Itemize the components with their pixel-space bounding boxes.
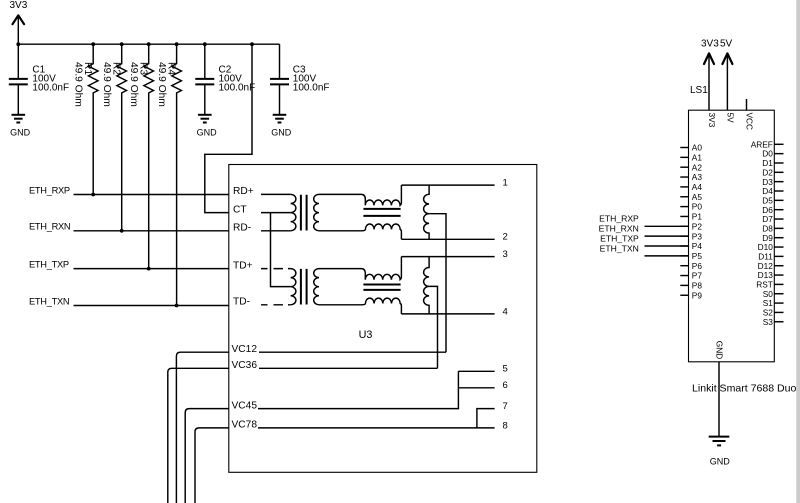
LS1 pin P5 bbox=[680, 251, 702, 261]
svg-text:3: 3 bbox=[503, 249, 508, 260]
LS1 pin A0 bbox=[680, 143, 702, 153]
capacitor C3 bbox=[270, 44, 330, 114]
svg-text:LS1: LS1 bbox=[690, 85, 708, 96]
svg-text:P3: P3 bbox=[692, 231, 703, 241]
svg-text:VC45: VC45 bbox=[232, 400, 258, 411]
junction R2-bottom bbox=[120, 229, 124, 233]
IC LS1 box bbox=[689, 110, 775, 362]
svg-text:S3: S3 bbox=[763, 317, 774, 327]
svg-text:RD+: RD+ bbox=[233, 186, 254, 197]
wire ETH_RXP to LS1 bbox=[645, 225, 689, 227]
svg-text:A5: A5 bbox=[692, 192, 703, 202]
junction rail-C2 bbox=[203, 42, 207, 46]
LS1 pin A1 bbox=[680, 152, 702, 162]
transformer T1 core bbox=[301, 195, 307, 231]
wire pin 5 bbox=[458, 370, 494, 372]
LS1 pin S1 bbox=[763, 298, 784, 308]
ground GND (C1) bbox=[10, 115, 31, 138]
LS1 pin RST bbox=[756, 280, 783, 290]
wire RD- lead bbox=[261, 230, 291, 232]
svg-text:A3: A3 bbox=[692, 172, 703, 182]
wire VC36 external bbox=[168, 368, 229, 503]
wire pin 7 riser bbox=[477, 409, 495, 428]
LS1 pin D7 bbox=[762, 214, 783, 224]
LS1 pin D13 bbox=[758, 270, 784, 280]
choke L1 core bbox=[363, 209, 400, 216]
LS1 pin P1 bbox=[680, 212, 702, 222]
svg-text:4: 4 bbox=[503, 306, 508, 317]
svg-text:49.9 Ohm: 49.9 Ohm bbox=[128, 62, 139, 107]
wire pin 2 bbox=[401, 238, 494, 240]
LS1 pin P9 bbox=[680, 290, 702, 300]
svg-text:ETH_RXN: ETH_RXN bbox=[29, 222, 70, 232]
svg-text:ETH_RXP: ETH_RXP bbox=[599, 214, 639, 224]
svg-text:49.9 Ohm: 49.9 Ohm bbox=[101, 62, 112, 107]
wire VC12 internal bbox=[259, 351, 446, 353]
svg-text:CT: CT bbox=[233, 204, 247, 215]
wire VC36 internal bbox=[259, 367, 438, 369]
junction rail-R3 bbox=[147, 42, 151, 46]
LS1 pin D0 bbox=[762, 149, 783, 159]
svg-text:P8: P8 bbox=[692, 281, 703, 291]
resistor R4 49.9 Ohm bbox=[156, 44, 181, 305]
wire pin 1 bbox=[401, 184, 494, 186]
LS1 pin P4 bbox=[680, 241, 702, 251]
wire VC45 external bbox=[185, 409, 229, 503]
svg-text:VC78: VC78 bbox=[232, 420, 258, 431]
wire RD+ lead bbox=[261, 193, 291, 195]
capacitor C1 bbox=[9, 44, 69, 114]
resistor R3 49.9 Ohm bbox=[128, 44, 153, 268]
ground GND (C3) bbox=[271, 115, 292, 138]
svg-text:3V3: 3V3 bbox=[10, 0, 28, 11]
svg-text:VC12: VC12 bbox=[232, 344, 258, 355]
LS1 pin A2 bbox=[680, 162, 702, 172]
svg-text:A2: A2 bbox=[692, 162, 703, 172]
LS1 pin D8 bbox=[762, 223, 783, 233]
svg-text:ETH_RXN: ETH_RXN bbox=[599, 224, 639, 234]
wire VC12 external bbox=[176, 352, 228, 503]
svg-text:5V: 5V bbox=[725, 113, 735, 124]
wire CT lead bbox=[261, 212, 291, 214]
LS1 pin D6 bbox=[762, 205, 783, 215]
svg-text:P6: P6 bbox=[692, 261, 703, 271]
LS1 pin A5 bbox=[680, 192, 702, 202]
LS1 pin D12 bbox=[758, 261, 784, 271]
wire ETH_TXN to LS1 bbox=[645, 255, 689, 257]
svg-text:ETH_TXN: ETH_TXN bbox=[600, 243, 639, 253]
junction R3-bottom bbox=[147, 267, 151, 271]
svg-text:TD+: TD+ bbox=[233, 260, 253, 271]
LS1 pin D1 bbox=[762, 158, 783, 168]
svg-text:U3: U3 bbox=[359, 329, 373, 341]
svg-text:Linkit Smart 7688 Duo: Linkit Smart 7688 Duo bbox=[692, 383, 796, 395]
svg-text:ETH_RXP: ETH_RXP bbox=[29, 185, 70, 195]
LS1 pin P0 bbox=[680, 202, 702, 212]
choke L2 bottom winding bbox=[319, 298, 401, 314]
svg-text:49.9 Ohm: 49.9 Ohm bbox=[73, 62, 84, 107]
svg-text:RD-: RD- bbox=[233, 223, 251, 234]
svg-text:VCC: VCC bbox=[745, 113, 755, 131]
svg-text:VC36: VC36 bbox=[232, 360, 258, 371]
svg-text:49.9 Ohm: 49.9 Ohm bbox=[156, 62, 167, 107]
wire VC45 internal bbox=[258, 371, 458, 408]
svg-text:8: 8 bbox=[503, 420, 508, 431]
svg-text:P5: P5 bbox=[692, 251, 703, 261]
ground GND (LS1) bbox=[709, 437, 731, 467]
LS1 pin D3 bbox=[762, 177, 783, 187]
capacitor C2 bbox=[195, 44, 255, 114]
svg-text:5V: 5V bbox=[720, 38, 733, 49]
svg-text:1: 1 bbox=[503, 178, 508, 189]
LS1 pin P2 bbox=[680, 221, 702, 231]
junction rail-R4 bbox=[175, 42, 179, 46]
LS1 pin D10 bbox=[758, 242, 784, 252]
junction R4-bottom bbox=[175, 304, 179, 308]
wire ETH_TXP to LS1 bbox=[645, 245, 689, 247]
LS1 pin D5 bbox=[762, 195, 783, 205]
choke L2 top winding bbox=[319, 257, 401, 280]
wire VC78 internal bbox=[258, 427, 495, 429]
resistor R2 49.9 Ohm bbox=[101, 44, 126, 231]
svg-text:P7: P7 bbox=[692, 271, 703, 281]
LS1 pin P3 bbox=[680, 231, 702, 241]
power 3V3 (LS1) bbox=[701, 38, 719, 110]
transformer T2 secondary winding bbox=[314, 269, 319, 305]
svg-text:A4: A4 bbox=[692, 182, 703, 192]
LS1 pin D9 bbox=[762, 233, 783, 243]
svg-text:GND: GND bbox=[197, 128, 218, 138]
svg-text:A1: A1 bbox=[692, 152, 703, 162]
svg-text:7: 7 bbox=[503, 401, 508, 412]
wire 3V3 rail bbox=[18, 43, 279, 45]
svg-text:6: 6 bbox=[503, 380, 508, 391]
choke L1 top winding bbox=[319, 185, 401, 205]
transformer T1 secondary winding bbox=[314, 194, 319, 230]
wire ETH_RXN to LS1 bbox=[645, 235, 689, 237]
choke L1 bottom winding bbox=[319, 224, 401, 239]
wire TD+ lead (dashed) bbox=[261, 268, 291, 270]
pin VCC stub bbox=[746, 99, 748, 110]
transformer T2 core bbox=[301, 269, 307, 305]
LS1 pin S0 bbox=[763, 289, 784, 299]
output winding W2 bbox=[424, 257, 430, 314]
LS1 pin P8 bbox=[680, 281, 702, 291]
svg-text:100.0nF: 100.0nF bbox=[219, 82, 256, 93]
IC U3 box bbox=[229, 165, 537, 473]
wire ETH_RXP to U3 bbox=[74, 194, 229, 196]
resistor R1 49.9 Ohm bbox=[73, 44, 98, 194]
LS1 pin A4 bbox=[680, 182, 702, 192]
LS1 pin S3 bbox=[763, 317, 784, 327]
wire ETH_TXN to U3 bbox=[74, 305, 229, 307]
wire pin 3 bbox=[401, 256, 494, 258]
svg-text:3V3: 3V3 bbox=[707, 113, 717, 128]
junction rail-CT bbox=[250, 42, 254, 46]
svg-text:GND: GND bbox=[271, 128, 292, 138]
svg-text:TD-: TD- bbox=[233, 297, 250, 308]
ground GND (C2) bbox=[197, 115, 218, 138]
junction rail-R1 bbox=[91, 42, 95, 46]
transformer T1 primary winding bbox=[291, 194, 296, 230]
wire VC78 external bbox=[195, 428, 229, 503]
wire CT to TD center tap bbox=[271, 213, 291, 287]
svg-text:3V3: 3V3 bbox=[701, 38, 719, 49]
LS1 pin D11 bbox=[758, 251, 783, 261]
wire ETH_RXN to U3 bbox=[74, 230, 229, 232]
output winding W1 bbox=[424, 185, 429, 239]
wire pin 4 bbox=[401, 313, 494, 315]
svg-text:P9: P9 bbox=[692, 290, 703, 300]
svg-text:100.0nF: 100.0nF bbox=[293, 82, 330, 93]
wire TD- lead (dashed) bbox=[261, 304, 291, 306]
svg-text:GND: GND bbox=[710, 456, 731, 466]
wire W2 center tap to VC36 bbox=[429, 286, 437, 368]
LS1 pin P6 bbox=[680, 261, 702, 271]
power 5V (LS1) bbox=[720, 38, 733, 110]
junction rail-R2 bbox=[120, 42, 124, 46]
LS1 pin A3 bbox=[680, 172, 702, 182]
svg-text:5: 5 bbox=[503, 364, 508, 375]
svg-text:2: 2 bbox=[503, 232, 508, 243]
power 3V3 bbox=[10, 0, 28, 44]
svg-text:ETH_TXN: ETH_TXN bbox=[29, 296, 69, 306]
transformer T2 primary winding bbox=[291, 269, 296, 305]
svg-text:GND: GND bbox=[10, 128, 31, 138]
svg-text:P1: P1 bbox=[692, 212, 703, 222]
junction rail-C1 bbox=[16, 42, 20, 46]
choke L2 core bbox=[363, 285, 400, 290]
svg-text:GND: GND bbox=[714, 341, 724, 359]
LS1 pin S2 bbox=[763, 308, 784, 318]
wire pin 6 bbox=[458, 387, 494, 389]
svg-text:P2: P2 bbox=[692, 221, 703, 231]
wire LS1 GND bbox=[718, 362, 720, 437]
wire ETH_TXP to U3 bbox=[74, 268, 229, 270]
window edge (right) bbox=[796, 0, 800, 503]
wire CT to 3V3 rail bbox=[205, 44, 252, 212]
svg-text:P0: P0 bbox=[692, 202, 703, 212]
LS1 pin AREF bbox=[751, 139, 784, 149]
LS1 pin P7 bbox=[680, 271, 702, 281]
svg-text:100.0nF: 100.0nF bbox=[32, 82, 69, 93]
svg-text:A0: A0 bbox=[692, 143, 703, 153]
svg-text:ETH_TXP: ETH_TXP bbox=[600, 233, 639, 243]
junction R1-bottom bbox=[91, 193, 95, 197]
LS1 pin D2 bbox=[762, 167, 783, 177]
wire W1 center tap to VC12 bbox=[429, 214, 446, 353]
svg-text:P4: P4 bbox=[692, 241, 703, 251]
LS1 pin D4 bbox=[762, 186, 783, 196]
svg-text:ETH_TXP: ETH_TXP bbox=[29, 260, 69, 270]
